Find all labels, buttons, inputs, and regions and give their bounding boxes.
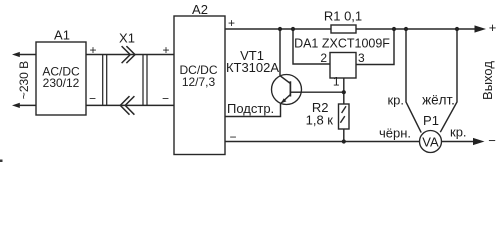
svg-text:−: −: [89, 91, 96, 105]
svg-text:12/7,3: 12/7,3: [182, 75, 216, 89]
base bar: [289, 81, 291, 96]
wire: A1 to A2 bottom (-): [86, 104, 174, 106]
arrowhead mains top: [12, 52, 20, 57]
output arrow -: [473, 138, 485, 145]
svg-text:кр.: кр.: [450, 125, 467, 140]
svg-text:1,8 к: 1,8 к: [306, 113, 334, 128]
output arrow +: [475, 25, 487, 32]
connector X1 bars left pair: [103, 55, 147, 106]
node: yellow sense junction: [455, 27, 459, 31]
svg-text:X1: X1: [119, 30, 135, 45]
wire: VT1 base to pin1 node: [302, 91, 344, 93]
connector X1 bottom chevron <<: [120, 96, 129, 115]
connector X1 bars right pair: [142, 55, 144, 106]
svg-text:A1: A1: [54, 28, 70, 43]
block A1 AC/DC 230/12: [36, 28, 86, 116]
collector diagonal: [280, 76, 290, 84]
arrowhead mains bottom: [12, 103, 20, 108]
svg-text:VA: VA: [422, 135, 439, 150]
svg-text:чёрн.: чёрн.: [379, 126, 411, 141]
node: base/pin1 junction: [342, 90, 346, 94]
svg-text:DA1 ZXCT1009F: DA1 ZXCT1009F: [294, 37, 390, 51]
svg-text:3: 3: [358, 51, 365, 65]
wire: A1 to A2 top (+): [86, 54, 174, 56]
wire: bottom rail right of meter: [441, 141, 476, 143]
corner speck: [0, 160, 3, 163]
wire: Podstr from A2 to VT1 emitter: [225, 104, 281, 117]
node: pin3 bracket junction: [392, 27, 396, 31]
wire: R2 to bottom rail: [343, 129, 345, 142]
wire: top output rail: [225, 28, 476, 30]
resistor R2 1,8k: [306, 100, 349, 129]
svg-text:+: +: [162, 43, 169, 57]
resistor R1 0,1 shunt: [331, 25, 356, 33]
svg-text:~230 В: ~230 В: [17, 61, 31, 99]
node: red sense junction: [404, 27, 408, 31]
node: collector junction: [278, 27, 282, 31]
svg-text:Подстр.: Подстр.: [227, 101, 274, 116]
svg-text:1: 1: [333, 74, 340, 88]
emitter diagonal: [281, 95, 291, 104]
svg-text:КТ3102А: КТ3102А: [226, 60, 279, 75]
wire: bottom output rail: [225, 141, 420, 143]
svg-text:+: +: [489, 20, 497, 35]
wire: mains input top arrow: [17, 54, 36, 56]
svg-text:−: −: [488, 133, 496, 148]
svg-text:кр.: кр.: [387, 93, 404, 108]
wire: meter red sense lead: [406, 29, 421, 133]
svg-text:R1 0,1: R1 0,1: [324, 9, 362, 24]
wire: DA1 pin3 bracket: [356, 29, 394, 65]
wire: VT1 collector: [279, 29, 281, 76]
svg-text:−: −: [162, 91, 169, 105]
svg-text:A2: A2: [192, 2, 208, 17]
transistor VT1 KT3102A: [226, 48, 302, 105]
svg-text:+: +: [89, 43, 96, 57]
node: R2 bottom junction: [342, 139, 346, 143]
emitter arrowhead: [281, 98, 287, 103]
svg-text:−: −: [229, 130, 236, 144]
wire: meter yellow sense lead: [440, 29, 457, 132]
op-amp DA1 ZXCT1009F box: [330, 53, 356, 79]
svg-text:+: +: [228, 16, 235, 30]
connector X1 top chevron >>: [120, 46, 135, 115]
svg-text:Выход: Выход: [480, 61, 495, 100]
svg-text:жёлт.: жёлт.: [422, 93, 455, 108]
base lead inside circle: [290, 91, 301, 93]
wire: mains input bottom arrow: [17, 104, 36, 106]
svg-text:230/12: 230/12: [43, 76, 80, 90]
node: pin2 bracket junction: [291, 27, 295, 31]
meter P1 VA: [379, 93, 467, 153]
wire: DA1 pin2 bracket: [293, 29, 330, 64]
block A2 DC/DC 12/7,3: [174, 2, 225, 155]
svg-text:2: 2: [320, 51, 327, 65]
wire: DA1 pin1 to R2: [343, 78, 345, 104]
svg-text:P1: P1: [423, 113, 439, 128]
